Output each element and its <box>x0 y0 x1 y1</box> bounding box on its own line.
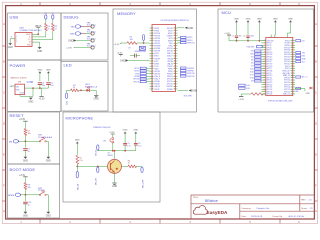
wire <box>52 19 54 23</box>
svg-text:IO7: IO7 <box>251 66 254 68</box>
svg-text:AMS1117-3.3(TR): AMS1117-3.3(TR) <box>11 77 27 80</box>
svg-text:IO4: IO4 <box>251 57 254 59</box>
svg-text:31: 31 <box>174 40 176 42</box>
ground flag (memory right top) <box>178 27 185 29</box>
svg-text:VOUT: VOUT <box>20 92 25 94</box>
svg-text:GPIO36: GPIO36 <box>284 50 290 52</box>
ground (mic transistor) <box>112 182 116 184</box>
wire <box>135 145 137 151</box>
wire <box>47 74 49 82</box>
wire VBUS pin <box>32 33 38 35</box>
svg-text:TX0: TX0 <box>302 52 305 54</box>
svg-text:TXD0: TXD0 <box>154 66 158 68</box>
wire <box>81 33 86 35</box>
wire <box>112 134 114 137</box>
wire emitter <box>114 172 116 183</box>
ground (reset cap) <box>24 157 28 159</box>
svg-text:GPIO33: GPIO33 <box>284 77 290 79</box>
wire D+ to R2 <box>32 39 53 41</box>
svg-text:GPIO11: GPIO11 <box>267 77 273 79</box>
svg-text:Company:: Company: <box>241 208 251 210</box>
svg-text:GPIO8: GPIO8 <box>267 61 272 63</box>
svg-text:IO6: IO6 <box>251 63 254 65</box>
net flag MIC_IN <box>97 167 99 173</box>
resistor R8 <box>24 183 27 190</box>
flash U5 left pins <box>150 28 162 91</box>
svg-text:38: 38 <box>174 58 176 60</box>
svg-text:46: 46 <box>174 78 176 80</box>
power flag +3.3V (power out) <box>41 88 43 97</box>
svg-text:GPIO34: GPIO34 <box>284 80 290 82</box>
svg-text:GND: GND <box>188 27 194 30</box>
svg-text:GPIO34: GPIO34 <box>167 81 173 83</box>
svg-text:FSPIQ: FSPIQ <box>168 71 174 73</box>
svg-text:GND: GND <box>246 18 251 20</box>
svg-text:EN: EN <box>9 141 12 143</box>
svg-text:ESP32-S3-WROOM-1-N8: ESP32-S3-WROOM-1-N8 <box>268 101 293 103</box>
svg-text:FSPIQ: FSPIQ <box>187 40 193 42</box>
svg-text:26: 26 <box>174 28 176 30</box>
svg-text:MTDO: MTDO <box>154 56 159 58</box>
svg-text:+3.3V: +3.3V <box>238 99 244 101</box>
svg-text:FSPID: FSPID <box>187 37 193 39</box>
svg-text:Date:: Date: <box>241 215 247 218</box>
svg-text:48: 48 <box>174 83 176 85</box>
junction <box>80 89 82 91</box>
net flag MIC_BIAS <box>97 145 99 150</box>
svg-text:GPIO3: GPIO3 <box>267 68 272 70</box>
wire <box>24 177 26 183</box>
svg-text:3V3_M: 3V3_M <box>95 150 97 156</box>
svg-text:GPIO26: GPIO26 <box>284 82 290 84</box>
svg-text:GPIO47: GPIO47 <box>267 89 273 91</box>
svg-text:IO8: IO8 <box>251 81 254 83</box>
svg-text:37: 37 <box>174 55 176 57</box>
resistor R5 <box>76 155 79 164</box>
svg-text:GPIO18: GPIO18 <box>267 59 273 61</box>
wire D- to R1 <box>32 36 46 38</box>
svg-text:FSPICK: FSPICK <box>167 74 174 76</box>
svg-text:GND: GND <box>112 186 117 188</box>
junction <box>76 166 78 168</box>
capacitor C2 <box>246 35 249 37</box>
svg-text:16: 16 <box>152 66 154 68</box>
svg-text:10: 10 <box>152 50 154 52</box>
svg-text:C1: C1 <box>232 36 234 38</box>
junction <box>32 87 34 89</box>
svg-text:BEatrice: BEatrice <box>205 199 218 203</box>
wire <box>66 90 68 93</box>
svg-text:GPIO45: GPIO45 <box>154 71 160 73</box>
svg-text:GND: GND <box>94 99 99 101</box>
svg-text:GPIO21: GPIO21 <box>267 87 273 89</box>
svg-text:GND: GND <box>46 161 51 163</box>
svg-text:GPIO12: GPIO12 <box>267 80 273 82</box>
regulator U2 body <box>15 84 25 94</box>
title block frame <box>191 195 314 219</box>
svg-text:GPIO48: GPIO48 <box>267 91 273 93</box>
capacitor C10 <box>23 201 27 203</box>
svg-text:GND: GND <box>306 93 311 95</box>
resistor R9 (mcu bottom) <box>251 93 263 96</box>
svg-text:+3.3V: +3.3V <box>114 44 120 46</box>
svg-text:REV:: REV: <box>301 200 306 202</box>
wire <box>24 190 26 202</box>
svg-text:30: 30 <box>174 38 176 40</box>
svg-text:IO5: IO5 <box>251 60 254 62</box>
flash U5 right pins <box>167 28 178 91</box>
wire base rail <box>76 164 78 166</box>
wire <box>124 145 126 151</box>
svg-text:RGB_LED: RGB_LED <box>282 70 290 72</box>
svg-text:10k: 10k <box>28 133 31 135</box>
wire <box>135 134 137 144</box>
wire <box>24 136 26 148</box>
svg-text:GND: GND <box>23 161 28 163</box>
svg-text:GND: GND <box>23 216 28 218</box>
svg-text:GPIO20: GPIO20 <box>267 66 273 68</box>
svg-text:GND: GND <box>257 18 262 20</box>
resistor R4 <box>127 42 137 45</box>
wire <box>24 121 26 128</box>
wire <box>45 19 47 23</box>
svg-text:CHIP_EN: CHIP_EN <box>267 40 275 42</box>
svg-text:CONNECTOR-MICRO: CONNECTOR-MICRO <box>19 30 41 32</box>
net flag stack (memory right low) <box>181 67 195 78</box>
wire <box>90 89 96 91</box>
svg-text:13: 13 <box>152 58 154 60</box>
wire <box>46 140 48 142</box>
svg-text:MIC_OUT: MIC_OUT <box>142 179 144 188</box>
button SW2 <box>39 194 40 195</box>
svg-text:GND: GND <box>46 69 51 71</box>
svg-text:44: 44 <box>174 73 176 75</box>
svg-text:GPIO38: GPIO38 <box>284 54 290 56</box>
svg-text:GPIO45: GPIO45 <box>167 48 173 50</box>
junction <box>143 42 145 44</box>
svg-text:3V3_OPB: 3V3_OPB <box>184 95 193 97</box>
transistor Q1 <box>108 159 122 173</box>
resistor R2 22 <box>52 23 55 30</box>
svg-text:41: 41 <box>174 66 176 68</box>
svg-text:GPIO9: GPIO9 <box>267 73 272 75</box>
svg-text:IO18: IO18 <box>250 78 254 80</box>
esp32 U1 right pins <box>282 40 295 96</box>
svg-text:GPIO38: GPIO38 <box>167 28 173 30</box>
svg-text:GPIO41: GPIO41 <box>284 61 290 63</box>
svg-text:42: 42 <box>174 68 176 70</box>
svg-text:GND: GND <box>8 47 13 49</box>
svg-text:GPIO45: GPIO45 <box>267 94 273 96</box>
svg-text:12: 12 <box>152 55 154 57</box>
svg-text:VBUS: VBUS <box>26 34 30 36</box>
wire <box>122 165 129 167</box>
capacitor C1 <box>235 35 238 37</box>
ground (boot button) <box>46 212 50 214</box>
svg-text:FSPIHD: FSPIHD <box>187 71 194 73</box>
svg-text:11: 11 <box>152 53 154 55</box>
junction <box>25 194 27 196</box>
ground (usb shield) <box>8 43 12 45</box>
svg-text:10k: 10k <box>28 187 31 189</box>
wire <box>25 140 40 142</box>
section box POWER <box>8 60 62 112</box>
esp32 U1 body <box>266 38 293 96</box>
svg-text:TITLE:: TITLE: <box>193 197 199 199</box>
wire shield to ground <box>10 38 15 40</box>
wire <box>19 140 25 142</box>
net flag MIC_OUT <box>141 167 143 173</box>
capacitor C5 <box>123 142 127 144</box>
svg-text:FSPIQ: FSPIQ <box>154 30 160 32</box>
wire <box>21 194 25 196</box>
svg-text:EasyEDA: EasyEDA <box>207 210 228 215</box>
wire <box>39 74 41 82</box>
svg-text:VUSB: VUSB <box>27 81 34 84</box>
svg-text:U0TXD: U0TXD <box>285 43 291 45</box>
net port (memory pullup) <box>142 35 144 41</box>
net flag MIC (mcu right) <box>296 76 301 78</box>
net flag IO0 (mcu right) <box>296 40 301 42</box>
svg-text:IO17: IO17 <box>250 75 254 77</box>
svg-text:GND: GND <box>192 90 198 93</box>
svg-text:JUMPER-2040: JUMPER-2040 <box>135 51 146 53</box>
capacitor C7 <box>23 148 27 150</box>
frame ticks top <box>40 2 280 5</box>
frame zone numbers bottom <box>20 222 300 224</box>
capacitor C6 <box>134 142 138 144</box>
capacitor C4 <box>46 82 50 84</box>
svg-text:Sheet:: Sheet: <box>301 207 308 210</box>
frame zone numbers top <box>20 4 300 6</box>
svg-text:GND: GND <box>46 216 51 218</box>
junction <box>259 40 261 42</box>
svg-text:GPIO34: GPIO34 <box>154 41 160 43</box>
svg-text:POWER: POWER <box>10 63 26 68</box>
wire GND pin <box>32 41 40 43</box>
svg-text:MTDI: MTDI <box>154 61 158 63</box>
jumper JP2 body <box>140 46 146 50</box>
svg-text:17: 17 <box>152 68 154 70</box>
svg-text:GPIO0: GPIO0 <box>8 195 15 197</box>
svg-text:GPIO2: GPIO2 <box>285 66 290 68</box>
svg-text:GPIO38: GPIO38 <box>154 51 160 53</box>
svg-text:FSPIHD: FSPIHD <box>167 89 174 91</box>
section box MCU <box>218 9 314 112</box>
junction <box>39 87 41 89</box>
frame ticks right <box>314 46 317 201</box>
frame zone letters right <box>315 23 317 213</box>
section box RESET <box>8 112 60 164</box>
svg-text:MIC_N: MIC_N <box>78 183 80 190</box>
svg-text:VDD3B: VDD3B <box>167 61 172 63</box>
svg-text:S8050: S8050 <box>108 155 113 157</box>
svg-text:TXD0: TXD0 <box>169 43 173 45</box>
svg-text:TX0: TX0 <box>250 51 253 53</box>
svg-text:D+: D+ <box>28 39 30 41</box>
wire <box>79 89 87 91</box>
svg-text:U0RXD: U0RXD <box>284 45 290 47</box>
svg-text:45: 45 <box>174 76 176 78</box>
capacitor C8 <box>134 54 136 58</box>
wire gnd drop <box>32 88 34 96</box>
svg-text:1u: 1u <box>28 151 30 153</box>
svg-text:23: 23 <box>152 83 154 85</box>
svg-text:MIC_O: MIC_O <box>302 77 308 79</box>
svg-text:+3.3V: +3.3V <box>66 47 72 49</box>
wire <box>124 134 126 144</box>
svg-text:GPIO42: GPIO42 <box>284 64 290 66</box>
svg-text:DEBUG: DEBUG <box>64 14 79 19</box>
svg-text:10u: 10u <box>50 85 53 87</box>
svg-text:GPIO14: GPIO14 <box>267 84 273 86</box>
svg-text:GPIO25: GPIO25 <box>284 84 290 86</box>
svg-text:GPIO22: GPIO22 <box>284 91 290 93</box>
svg-text:MTMS: MTMS <box>168 41 173 43</box>
svg-text:FSPICS1: FSPICS1 <box>187 76 195 78</box>
svg-text:MCU: MCU <box>222 10 232 15</box>
svg-text:GPIO16: GPIO16 <box>267 54 273 56</box>
LED LED1 <box>87 89 90 92</box>
svg-text:BOOT MODE: BOOT MODE <box>10 167 36 172</box>
wire <box>129 60 150 62</box>
svg-text:IO46: IO46 <box>246 88 250 90</box>
svg-text:VDDSPI: VDDSPI <box>167 35 173 37</box>
svg-text:FSPICS0: FSPICS0 <box>187 73 195 75</box>
svg-text:MEMORY: MEMORY <box>117 11 136 16</box>
svg-text:GPIO19: GPIO19 <box>267 64 273 66</box>
svg-text:FSPIWP: FSPIWP <box>154 46 160 48</box>
svg-text:TS-1187A-B-A-B: TS-1187A-B-A-B <box>38 136 53 139</box>
test point TP2 <box>91 32 94 35</box>
svg-text:GPIO33: GPIO33 <box>167 79 173 81</box>
svg-text:1k: 1k <box>128 163 130 165</box>
svg-text:VDD3P3: VDD3P3 <box>247 46 256 48</box>
svg-text:FSPID: FSPID <box>154 28 160 30</box>
svg-text:GPIO46: GPIO46 <box>167 51 173 53</box>
junction <box>25 140 27 142</box>
svg-text:GND: GND <box>28 101 33 103</box>
svg-text:GND: GND <box>68 40 74 43</box>
svg-text:GPIO15: GPIO15 <box>267 52 273 54</box>
svg-text:GPIO46: GPIO46 <box>267 70 273 72</box>
junction <box>97 166 99 168</box>
svg-text:GPIO17: GPIO17 <box>267 57 273 59</box>
ground (reset button) <box>46 157 50 159</box>
svg-text:A.M. & I.V.&V.A.: A.M. & I.V.&V.A. <box>289 215 305 218</box>
svg-text:RX0: RX0 <box>250 54 253 56</box>
section box MICROPHONE <box>63 112 160 202</box>
svg-text:MTDI: MTDI <box>169 38 173 40</box>
wire vout rail <box>25 87 49 89</box>
svg-text:MTDO: MTDO <box>168 33 173 35</box>
EasyEDA logo <box>193 206 207 215</box>
svg-text:MTMS: MTMS <box>154 63 159 65</box>
svg-text:RXD0: RXD0 <box>168 46 172 48</box>
svg-text:LED: LED <box>64 63 72 68</box>
svg-text:GPIO35: GPIO35 <box>167 84 173 86</box>
svg-text:43: 43 <box>174 71 176 73</box>
svg-text:15: 15 <box>152 63 154 65</box>
svg-text:GPIO39: GPIO39 <box>133 79 139 81</box>
resistor R1 22 <box>45 23 48 30</box>
svg-text:GPIO13: GPIO13 <box>267 82 273 84</box>
svg-text:G: G <box>315 211 317 213</box>
svg-text:RESET: RESET <box>10 113 24 118</box>
section box LED <box>61 62 108 112</box>
resistor R7 <box>24 129 27 136</box>
test point TP3 <box>91 39 94 42</box>
svg-text:21: 21 <box>152 78 154 80</box>
svg-text:MTDI: MTDI <box>135 73 140 75</box>
svg-text:28: 28 <box>174 33 176 35</box>
svg-text:FSPIWP: FSPIWP <box>187 68 195 70</box>
esp32 U1 left pins <box>261 40 274 96</box>
svg-text:33: 33 <box>174 45 176 47</box>
wire <box>137 42 150 44</box>
svg-text:GPIO37: GPIO37 <box>284 52 290 54</box>
svg-text:GND: GND <box>133 130 138 132</box>
test point TP4 <box>91 46 94 49</box>
svg-text:GPIO33: GPIO33 <box>154 38 160 40</box>
svg-text:22: 22 <box>152 81 154 83</box>
svg-text:VDDSPI: VDDSPI <box>154 58 160 60</box>
wire <box>77 40 91 42</box>
net flag IO8 <box>65 93 67 99</box>
net flag MIC_N (left) <box>76 171 78 178</box>
svg-text:FSPICS: FSPICS <box>154 35 160 37</box>
section box BOOT MODE <box>8 164 60 218</box>
wire input <box>12 85 16 87</box>
wire collector <box>114 151 116 160</box>
svg-text:GND: GND <box>37 69 42 71</box>
svg-text:24: 24 <box>152 86 154 88</box>
svg-text:FSPICS: FSPICS <box>167 76 173 78</box>
svg-text:IO0: IO0 <box>302 40 305 42</box>
test point TP1 <box>91 25 94 28</box>
svg-text:+3.3V: +3.3V <box>38 99 45 101</box>
svg-text:36: 36 <box>174 53 176 55</box>
wire gnd drops <box>237 23 291 41</box>
wire <box>46 194 48 196</box>
svg-text:GPIO46: GPIO46 <box>154 74 160 76</box>
svg-text:10u: 10u <box>239 36 242 38</box>
svg-text:GPIO5: GPIO5 <box>267 45 272 47</box>
wire <box>76 144 78 156</box>
svg-text:49: 49 <box>174 86 176 88</box>
wire <box>81 26 90 28</box>
svg-text:GPIO0: GPIO0 <box>285 40 290 42</box>
svg-text:GPIO23: GPIO23 <box>284 89 290 91</box>
junction <box>247 40 249 42</box>
svg-text:FSPIHD: FSPIHD <box>154 48 161 50</box>
svg-text:GND: GND <box>273 18 278 20</box>
junction <box>236 40 238 42</box>
wire <box>143 41 145 44</box>
wire <box>75 47 91 49</box>
svg-text:GPIO40: GPIO40 <box>133 81 139 83</box>
svg-text:EMERALD_B: EMERALD_B <box>85 86 98 89</box>
svg-text:29: 29 <box>174 35 176 37</box>
ground (usb connector) <box>38 47 42 49</box>
svg-text:39: 39 <box>174 61 176 63</box>
svg-text:1u: 1u <box>28 204 30 206</box>
svg-text:50: 50 <box>174 88 176 90</box>
svg-text:10u: 10u <box>42 85 45 87</box>
frame ticks bottom <box>40 219 280 224</box>
section box DEBUG <box>61 13 108 60</box>
svg-text:GND: GND <box>120 60 126 63</box>
